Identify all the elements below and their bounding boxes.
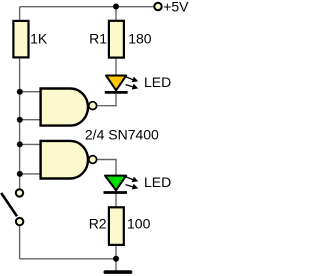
LED2 (green) triangle [105,176,126,191]
wire: gate U1B output [97,159,117,161]
svg-text:R2: R2 [89,216,107,232]
resistor R2 [109,207,124,245]
wire: switch bottom to bottom rail [19,226,21,259]
wire: gate U1A top input stub [20,91,41,93]
wire: R2 bottom to ground [115,245,117,271]
svg-text:+5V: +5V [163,0,189,15]
resistor 1K [13,21,28,58]
svg-text:100: 100 [127,216,151,232]
svg-text:2/4 SN7400: 2/4 SN7400 [85,126,159,142]
junction node U1A input top [17,89,23,95]
svg-text:LED: LED [144,74,171,90]
wire: stub from top rail down to resistor 1K [19,7,21,21]
resistor R1 [109,21,124,58]
switch SW1 top terminal [16,189,23,196]
LED1 (yellow) triangle [106,76,126,91]
switch SW1 bottom terminal [16,218,23,225]
junction node U1A input bottom [17,117,23,123]
wire: node down to LED2 [115,160,117,176]
wire: gate U1A output to LED1 node [97,105,117,107]
junction node U1B input bottom [17,171,23,177]
wire: gate U1B bottom input stub [20,173,41,175]
ground [105,270,130,274]
svg-text:180: 180 [128,30,152,46]
LED2 cathode bar [104,191,128,194]
NAND gate U1A body [41,89,88,126]
LED2 emission arrow 2 [126,184,139,190]
NAND gate U1B body [41,141,88,179]
wire: gate U1B top input stub [20,143,41,145]
svg-text:LED: LED [144,174,171,190]
LED1 emission arrow 1 [126,77,138,83]
svg-text:1K: 1K [30,30,48,46]
wire: LED2 cathode to R2 [115,194,117,208]
wire: stub from top rail down to resistor R1 [115,7,117,21]
+5V terminal [154,3,161,10]
junction node above R1 [113,4,119,10]
NAND gate U1B output bubble [89,156,97,164]
NAND gate U1A output bubble [89,102,97,110]
wire: R1 to LED1 [115,57,117,75]
svg-text:R1: R1 [89,30,107,46]
wire: gate U1A bottom input stub [20,119,41,121]
LED1 cathode bar [105,91,128,94]
wire: bottom horizontal rail [20,258,116,260]
junction node bottom rail [113,256,119,262]
LED2 emission arrow 1 [126,177,138,183]
wire: LED1 cathode down to node [115,94,117,106]
wire: left vertical rail from 1K to switch [19,57,21,189]
wire: top horizontal +5V rail [20,6,155,8]
junction node U1B input top [17,141,23,147]
LED1 emission arrow 2 [126,84,139,90]
switch SW1 lever [1,193,17,216]
